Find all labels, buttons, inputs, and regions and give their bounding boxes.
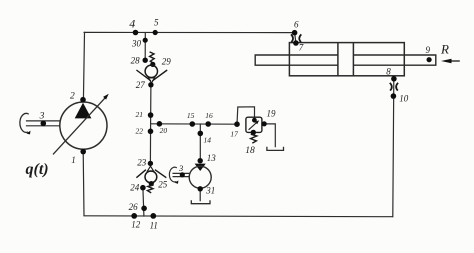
node 24: [140, 185, 146, 191]
check valve V2 seat wings: [136, 170, 166, 178]
node 14: [198, 131, 204, 137]
node 20: [157, 121, 163, 127]
pump shaft: [26, 121, 60, 126]
wire right vertical (cylinder to bottom line): [393, 79, 394, 217]
svg-text:16: 16: [205, 111, 213, 120]
svg-text:5: 5: [154, 18, 159, 28]
node 1: [80, 149, 86, 155]
relief valve spring: [251, 134, 257, 143]
motor M1 triangle: [195, 164, 206, 171]
svg-text:4: 4: [129, 17, 135, 31]
node 12: [131, 213, 137, 219]
relief valve internal arrow: [249, 120, 260, 130]
svg-text:21: 21: [136, 110, 144, 119]
node 18: [251, 130, 256, 135]
relief valve tank symbol: [267, 147, 284, 151]
svg-text:3: 3: [39, 112, 45, 122]
svg-text:1: 1: [71, 155, 76, 165]
svg-text:24: 24: [130, 182, 140, 192]
node 21: [148, 112, 154, 118]
node 16: [205, 121, 211, 127]
node 31: [198, 186, 203, 191]
svg-text:3: 3: [178, 163, 183, 173]
node 8: [391, 76, 397, 82]
check valve V1 spring: [150, 52, 155, 63]
check valve V2 spring: [147, 185, 153, 193]
pump P1 variable arrow: [53, 94, 109, 155]
wire motor to tank: [199, 189, 201, 201]
svg-text:13: 13: [207, 153, 217, 163]
svg-text:27: 27: [136, 80, 146, 90]
wire center line: [151, 123, 237, 125]
node 19: [262, 121, 267, 126]
wire motor branch: [199, 124, 201, 161]
wire top line: [84, 31, 295, 33]
cylinder rod: [255, 55, 436, 65]
node 22: [148, 129, 154, 135]
wire node 24 down to bottom line: [143, 188, 144, 217]
wire pump inlet down: [82, 152, 85, 216]
node 27: [148, 82, 153, 87]
pump P1 circle: [60, 102, 107, 149]
motor tank symbol: [191, 200, 210, 204]
svg-text:2: 2: [70, 92, 75, 102]
motor M1 circle: [189, 166, 211, 188]
check valve V2 (node 23): [148, 161, 153, 166]
node 9: [427, 57, 432, 62]
svg-text:q(t): q(t): [26, 161, 49, 178]
motor rotation arc: [169, 167, 178, 184]
svg-text:9: 9: [426, 45, 431, 55]
svg-text:28: 28: [131, 55, 141, 65]
wire bottom line: [84, 215, 393, 218]
svg-text:29: 29: [162, 56, 172, 66]
node 4: [133, 30, 139, 36]
relief valve RV body: [246, 117, 262, 132]
orifice O2 (8-10): [390, 83, 398, 91]
wire node 6 to node 7: [295, 33, 296, 43]
check valve V1 seat apex: [148, 78, 154, 83]
node 13: [198, 158, 203, 163]
svg-text:22: 22: [136, 127, 144, 136]
svg-text:17: 17: [230, 130, 238, 139]
wire left vertical (top line to pump outlet): [83, 32, 84, 101]
node 25 dot: [149, 181, 154, 186]
force arrow R: [441, 59, 460, 63]
svg-text:18: 18: [245, 146, 255, 156]
node 7: [293, 40, 299, 46]
svg-text:8: 8: [386, 67, 391, 77]
cylinder barrel: [289, 43, 404, 76]
wire check valve V1 to node 27 chain: [149, 85, 152, 164]
svg-text:30: 30: [131, 38, 142, 48]
svg-text:15: 15: [187, 111, 195, 120]
svg-text:31: 31: [205, 186, 215, 196]
node 26: [141, 206, 147, 212]
svg-text:10: 10: [399, 93, 409, 103]
node 6: [292, 30, 298, 36]
svg-text:12: 12: [131, 220, 141, 230]
relief valve pilot node: [252, 118, 257, 123]
svg-text:26: 26: [129, 202, 139, 212]
check valve V2 ball: [145, 171, 157, 183]
wire relief valve outlet to tank: [262, 124, 275, 147]
svg-text:23: 23: [137, 158, 147, 168]
svg-text:25: 25: [158, 180, 168, 190]
node 15: [190, 121, 196, 127]
check valve V1 seat wings: [136, 70, 167, 81]
node 29: [150, 62, 155, 67]
wire pilot line node 17 to relief valve: [237, 107, 255, 124]
node 28: [143, 58, 148, 63]
check valve V1 ball: [145, 65, 157, 77]
motor shaft node 3: [180, 172, 185, 177]
node 11: [150, 213, 156, 219]
pump P1 outlet triangle: [75, 103, 92, 119]
check valve V2 seat apex: [147, 166, 153, 171]
node 10: [391, 93, 397, 99]
node 3: [41, 121, 47, 127]
svg-text:14: 14: [204, 135, 212, 144]
svg-text:20: 20: [160, 126, 168, 135]
node 17: [234, 121, 240, 127]
node 5: [153, 30, 158, 35]
motor shaft: [173, 173, 190, 176]
wire branch to node 30: [144, 33, 146, 61]
orifice O1 (6-7): [291, 34, 301, 42]
svg-text:11: 11: [150, 220, 158, 230]
svg-text:7: 7: [299, 43, 304, 53]
node 30: [143, 38, 148, 43]
svg-text:6: 6: [294, 19, 299, 29]
node 2: [80, 97, 86, 103]
svg-text:R: R: [440, 41, 449, 56]
pump shaft rotation arc: [20, 113, 31, 134]
svg-text:19: 19: [267, 109, 277, 119]
cylinder piston: [338, 43, 354, 76]
